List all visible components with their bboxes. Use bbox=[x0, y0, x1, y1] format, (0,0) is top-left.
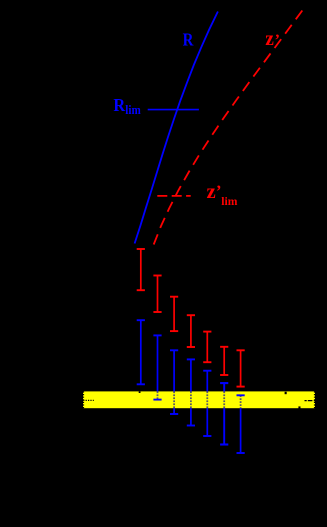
black dotted vertical line at band right edge bbox=[314, 391, 316, 408]
blue curve R bbox=[135, 12, 218, 244]
blue error bar B7 bbox=[237, 395, 245, 453]
svg-text:lim: lim bbox=[221, 194, 237, 208]
black notch at band bottom bbox=[298, 406, 300, 408]
blue error bar B3 bbox=[170, 350, 178, 414]
blue error bar B1 bbox=[137, 320, 145, 384]
black notch at band top under bar B1 bbox=[139, 391, 141, 393]
blue error bar B2 bbox=[153, 335, 161, 399]
red error bar R7 bbox=[237, 350, 245, 386]
red error bar R1 bbox=[137, 249, 145, 290]
red error bar R5 bbox=[203, 332, 211, 363]
red error bar R3 bbox=[170, 297, 178, 331]
red error bar R6 bbox=[220, 347, 228, 375]
yellow band bbox=[83, 391, 315, 408]
red dashed curve z' bbox=[154, 11, 303, 245]
red error bar R4 bbox=[187, 315, 195, 347]
red error bar R2 bbox=[153, 276, 161, 313]
black notch at band top bbox=[285, 392, 287, 394]
blue error bar B4 bbox=[187, 359, 195, 425]
blue error bar B5 bbox=[203, 371, 211, 436]
svg-text:z: z bbox=[207, 182, 217, 203]
svg-text:’: ’ bbox=[275, 32, 280, 49]
black dotted vertical line at band left edge bbox=[82, 391, 84, 408]
svg-text:z: z bbox=[265, 29, 274, 50]
svg-text:R: R bbox=[183, 30, 195, 50]
black dashed horizontal line right inside band bbox=[305, 400, 316, 402]
svg-text:R: R bbox=[113, 95, 126, 115]
svg-text:lim: lim bbox=[125, 103, 141, 117]
black dotted horizontal line left inside band bbox=[83, 399, 94, 401]
blue error bar B6 bbox=[220, 383, 228, 444]
blue horizontal line R_lim bbox=[148, 109, 199, 111]
red dashed horizontal line z'_lim bbox=[157, 195, 190, 197]
